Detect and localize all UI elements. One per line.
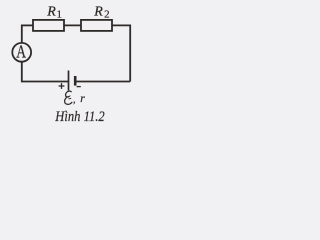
label script-E (EMF) <box>65 91 73 104</box>
resistor R2 <box>81 20 112 31</box>
svg-text:A: A <box>16 43 26 62</box>
wire left vertical upper <box>21 25 23 44</box>
svg-text:Hình 11.2: Hình 11.2 <box>54 108 104 124</box>
wire right vertical <box>129 25 131 82</box>
battery minus sign <box>77 86 81 88</box>
svg-text:R: R <box>46 4 56 19</box>
svg-text:r: r <box>80 93 85 105</box>
battery plus sign <box>59 83 65 89</box>
wire top-right segment <box>112 24 130 26</box>
svg-text:R: R <box>93 4 103 19</box>
svg-text:1: 1 <box>57 8 63 20</box>
battery long plate (+) <box>68 71 70 91</box>
label R1 <box>46 4 62 20</box>
wire between R1 and R2 <box>64 24 81 26</box>
wire bottom-left to battery <box>22 81 69 83</box>
wire left vertical lower <box>21 62 23 83</box>
ammeter A circle <box>12 43 31 62</box>
wire top-left segment <box>22 24 33 26</box>
wire battery to bottom-right <box>75 81 130 83</box>
svg-text:2: 2 <box>104 8 110 20</box>
label R2 <box>93 4 109 20</box>
resistor R1 <box>33 20 64 31</box>
script-E middle tick <box>69 97 72 100</box>
svg-text:,: , <box>73 94 76 106</box>
battery short plate (-) <box>74 76 77 86</box>
